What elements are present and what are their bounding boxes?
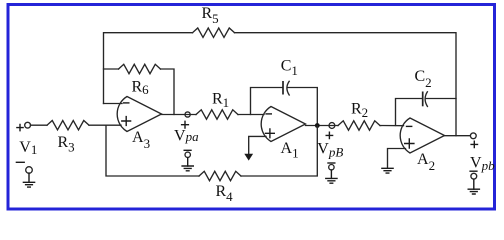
A1 plus sign xyxy=(266,129,275,138)
wire A1 noninverting input to ground xyxy=(249,136,266,153)
VpB minus terminal and ground xyxy=(328,162,335,164)
junction node dot xyxy=(315,123,320,128)
resistor R1 xyxy=(196,110,238,119)
node V1 minus terminal xyxy=(16,161,24,163)
svg-text:R6: R6 xyxy=(132,78,150,97)
wire top-left from left vertical to R5 xyxy=(104,33,193,104)
node VpB terminal xyxy=(329,123,335,129)
wire R6 left lead xyxy=(104,68,119,70)
Vpa minus terminal and ground xyxy=(184,149,191,151)
capacitor C2 xyxy=(422,92,424,107)
wire down to R4 right end xyxy=(241,126,317,177)
node Vpb terminal xyxy=(470,133,476,139)
capacitor C1 xyxy=(282,81,284,95)
svg-text:V1: V1 xyxy=(19,139,37,157)
wire A2 output to Vpb terminal xyxy=(445,135,471,137)
svg-text:Vpa: Vpa xyxy=(174,127,199,144)
A3 plus sign xyxy=(122,117,131,126)
resistor R2 xyxy=(338,121,380,130)
wire R1 to A1 inverting input xyxy=(238,114,264,116)
wire C2 right to long vertical xyxy=(426,98,456,100)
ground triangle at A1 + input xyxy=(244,154,253,161)
A1 minus sign xyxy=(266,113,271,115)
ground under V1 xyxy=(28,173,30,182)
wire C1 right to output node xyxy=(288,88,318,126)
wire A1 output to R2 xyxy=(306,125,339,127)
wire C2 left vertical xyxy=(396,99,423,126)
Vpb minus terminal and ground xyxy=(470,170,477,172)
wire V1 to R3 xyxy=(31,124,48,126)
resistor R4 xyxy=(199,171,241,180)
wire R6 right lead down to A3 output wire xyxy=(161,69,175,115)
resistor R5 xyxy=(193,28,235,37)
wire R3 to A3 noninverting input xyxy=(89,124,121,126)
node V1 plus terminal xyxy=(17,125,23,131)
wire down to R4 xyxy=(106,125,199,176)
A2 minus sign xyxy=(407,125,412,127)
node Vpa terminal xyxy=(185,112,190,117)
resistor R3 xyxy=(47,121,89,130)
wire R2 to A2 inverting input xyxy=(380,125,404,127)
resistor R6 xyxy=(119,64,161,73)
svg-text:Vpb: Vpb xyxy=(470,155,495,174)
wire A3 inverting input stub xyxy=(104,103,123,105)
wire C1 left vertical xyxy=(251,88,283,115)
op-amp A2 xyxy=(400,118,444,153)
wire A2 noninverting input to ground xyxy=(388,149,406,169)
ground at A2 + input xyxy=(382,168,393,173)
wire A3 output to R1 xyxy=(162,114,197,116)
op-amp A1 xyxy=(261,107,305,142)
A2 plus sign xyxy=(405,139,414,148)
wire R5 right to long right vertical down to A2 output xyxy=(235,33,457,136)
op-amp A3 xyxy=(117,97,161,132)
A3 minus sign xyxy=(124,102,129,104)
